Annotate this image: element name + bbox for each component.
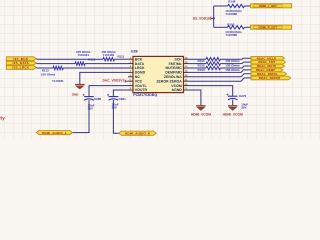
wire I2S_DATA to R112 <box>37 63 76 65</box>
svg-text:SCK: SCK <box>174 57 182 61</box>
svg-text:DEMP/MD: DEMP/MD <box>165 71 182 75</box>
text ity (clipped label) <box>0 115 5 121</box>
svg-text:I2S_BCK: I2S_BCK <box>13 57 28 61</box>
power port DAC_VDD3V3 <box>102 79 128 83</box>
svg-text:R152: R152 <box>198 63 206 67</box>
resistor R152 <box>198 62 240 68</box>
svg-text:T110181: T110181 <box>103 53 115 57</box>
svg-text:R111: R111 <box>118 54 125 58</box>
svg-text:ity: ity <box>0 115 5 121</box>
svg-text:VCOM: VCOM <box>171 84 182 88</box>
wire U28 pin15 to R152 <box>189 63 207 65</box>
ground GND <box>72 85 85 97</box>
svg-text:R153: R153 <box>198 68 206 72</box>
svg-text:I2S_LRCK: I2S_LRCK <box>12 66 29 70</box>
svg-text:C280: C280 <box>94 97 102 101</box>
capacitor C281 <box>107 94 126 110</box>
port I2S_BCK <box>6 57 36 61</box>
svg-text:100 Ohms: 100 Ohms <box>41 73 56 77</box>
svg-text:25V: 25V <box>241 106 246 110</box>
svg-text:HDMI_VCOM: HDMI_VCOM <box>223 112 243 116</box>
svg-text:C281: C281 <box>119 97 127 101</box>
svg-text:RDAC_ZEROR: RDAC_ZEROR <box>259 76 281 80</box>
svg-text:MUTE/MC: MUTE/MC <box>165 66 182 70</box>
svg-text:PCM1753DBQ: PCM1753DBQ <box>133 93 157 97</box>
svg-text:LRCK: LRCK <box>135 66 145 70</box>
svg-text:GND: GND <box>72 93 80 97</box>
port I2S_DATA <box>6 61 36 65</box>
power port DS_VDD18 <box>193 17 214 21</box>
svg-text:DS_VDD18: DS_VDD18 <box>193 17 210 21</box>
capacitor C279 <box>226 94 248 110</box>
svg-text:FMT/ML: FMT/ML <box>169 62 183 66</box>
wire VOUTL <box>89 86 128 97</box>
svg-text:HDMI_AUDIO_L: HDMI_AUDIO_L <box>42 131 67 135</box>
wire U28 pin16 to R151 <box>189 58 207 60</box>
svg-text:AGND: AGND <box>171 88 182 92</box>
wire DS_VDD18 to R150 <box>214 26 228 28</box>
svg-text:ZEROR ZEROA: ZEROR ZEROA <box>156 79 182 83</box>
svg-text:DGND: DGND <box>135 71 146 75</box>
wire R150 to HDMI_R_DET <box>245 26 251 28</box>
svg-text:R112: R112 <box>88 57 95 61</box>
wire VOUTR <box>113 90 128 97</box>
wire R152 to port <box>221 62 252 64</box>
U28 right pin names <box>156 57 182 92</box>
port HDMI_R_DET <box>251 25 292 29</box>
resistor R112 <box>75 50 96 65</box>
power port HDMI_VCOM (VCOM) <box>223 106 243 117</box>
resistor R153 <box>198 66 240 72</box>
wire DS_VDD18 to R149 <box>214 5 228 7</box>
port RDAC_ZEROL <box>251 72 287 76</box>
op-amp U28 body (PCM1753DBQ DAC) <box>131 49 184 96</box>
resistor R149 <box>225 0 244 16</box>
svg-text:DATA: DATA <box>135 62 145 66</box>
resistor R111 <box>101 50 124 61</box>
svg-text:25V: 25V <box>112 106 117 110</box>
wire R149 to HDMI_L_DET <box>245 5 251 7</box>
svg-text:T110181: T110181 <box>52 79 64 83</box>
svg-text:R151: R151 <box>198 59 206 63</box>
svg-text:HDMI_VCOM: HDMI_VCOM <box>191 112 211 116</box>
port RDAC_MUTE <box>251 64 285 68</box>
wire DS_VDD18 vertical <box>213 6 215 27</box>
port RDAC_FMT <box>251 60 286 64</box>
svg-text:U28: U28 <box>131 49 138 53</box>
svg-text:25V: 25V <box>88 107 93 111</box>
svg-text:NC: NC <box>135 75 141 79</box>
port RDAC_DEMP <box>251 68 283 72</box>
wire R151 to port <box>221 58 252 59</box>
svg-text:C279: C279 <box>239 94 247 98</box>
wire R112 to U28 pin2 <box>85 63 128 65</box>
U28 left pin names <box>135 57 148 92</box>
svg-text:R150: R150 <box>227 22 235 26</box>
power port HDMI_VCOM (AGND) <box>191 106 211 117</box>
port RDAC_ZEROR <box>251 76 291 80</box>
resistor R150 <box>225 22 244 37</box>
wire C281 to port <box>113 100 118 133</box>
wire U28 pin12 to port <box>189 74 252 77</box>
wire I2S_LRCK to R113 <box>37 67 53 69</box>
wire VCOM <box>189 86 233 97</box>
wire R113 to U28 pin3 <box>63 67 128 69</box>
port I2S_LRCK <box>6 66 36 70</box>
wire C280 to port <box>73 100 90 133</box>
svg-text:HDMI_AUDIO_R: HDMI_AUDIO_R <box>125 131 151 135</box>
wire R111 to U28 pin1 <box>115 58 129 60</box>
svg-text:VOUTL: VOUTL <box>135 84 148 88</box>
port HDMI_L_DET <box>251 4 292 8</box>
svg-text:VOUTR: VOUTR <box>135 88 148 92</box>
wire U28 pin13 to port <box>189 70 252 73</box>
svg-text:I2S_DATA: I2S_DATA <box>13 61 30 65</box>
resistor R151 <box>198 58 240 64</box>
svg-text:DAC_VDD3V3: DAC_VDD3V3 <box>102 79 124 83</box>
svg-text:T110398: T110398 <box>225 12 237 16</box>
wire I2S_BCK to R111 <box>37 58 104 60</box>
svg-text:T110181: T110181 <box>77 53 89 57</box>
wire U28 pin14 to R153 <box>189 67 207 69</box>
wire AGND <box>189 90 201 106</box>
svg-text:BCK: BCK <box>135 57 143 61</box>
svg-text:ZEROL/NA: ZEROL/NA <box>164 75 182 79</box>
port HDMI_AUDIO_R <box>119 131 157 135</box>
port HDMI_AUDIO_L <box>36 131 72 135</box>
port RDAC_MCLK <box>251 56 285 60</box>
capacitor C280 <box>83 94 102 111</box>
svg-text:HDMI_R_DET: HDMI_R_DET <box>259 25 278 29</box>
wire U28 pin11 to port <box>189 78 252 81</box>
svg-text:T110398: T110398 <box>225 33 237 37</box>
U28 pin numbers <box>130 56 189 90</box>
junction DS_VDD18 <box>213 17 215 19</box>
wire R153 to port <box>221 66 252 68</box>
svg-text:R149: R149 <box>228 0 236 4</box>
resistor R113 <box>41 66 64 83</box>
wire DGND <box>80 72 128 84</box>
svg-text:HDMI_L_DET: HDMI_L_DET <box>259 4 277 8</box>
U28 pin stubs <box>128 59 189 90</box>
svg-text:VCC: VCC <box>135 79 143 83</box>
wire C279 to HDMI_VCOM <box>232 100 234 106</box>
